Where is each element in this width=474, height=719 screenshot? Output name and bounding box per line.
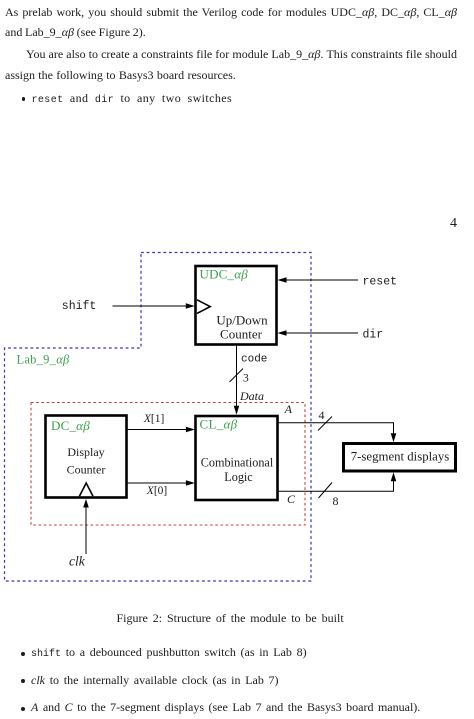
wire A 4-bit bus CL to displays bbox=[278, 402, 396, 442]
paragraph line 4 bbox=[5, 69, 236, 81]
paragraph line 1 bbox=[5, 6, 457, 18]
paragraph line 2 bbox=[5, 26, 146, 38]
block DC_ab Display Counter bbox=[46, 416, 127, 498]
svg-text:dir: dir bbox=[363, 329, 384, 342]
clock input triangle of UDC bbox=[197, 300, 210, 314]
svg-text:C: C bbox=[287, 492, 296, 506]
svg-text:X[0]: X[0] bbox=[146, 485, 167, 497]
svg-text:8: 8 bbox=[333, 494, 339, 508]
svg-text:Data: Data bbox=[239, 389, 264, 403]
svg-text:A: A bbox=[284, 402, 293, 416]
svg-text:Display: Display bbox=[67, 445, 104, 459]
svg-text:code: code bbox=[241, 354, 267, 366]
svg-text:UDC_αβ: UDC_αβ bbox=[200, 267, 249, 282]
svg-text:Up/Down: Up/Down bbox=[216, 313, 268, 328]
boundary red dashed (datapath group) bbox=[31, 403, 305, 526]
svg-text:shift: shift bbox=[62, 300, 97, 313]
clock input triangle of DC bbox=[79, 483, 93, 496]
block 7-segment displays bbox=[344, 444, 456, 472]
bullet A and C bbox=[21, 707, 25, 711]
bullet clk bbox=[21, 679, 25, 683]
wire shift input bbox=[62, 300, 195, 313]
svg-text:Combinational: Combinational bbox=[201, 455, 274, 469]
block CL_ab Combinational Logic bbox=[196, 416, 278, 500]
svg-text:CL_αβ: CL_αβ bbox=[200, 417, 238, 432]
bullet reset/dir bbox=[22, 97, 26, 101]
paragraph line 3 bbox=[26, 48, 457, 60]
block UDC_ab Up/Down Counter bbox=[196, 266, 277, 345]
svg-text:Lab_9_αβ: Lab_9_αβ bbox=[17, 353, 70, 367]
svg-text:Logic: Logic bbox=[224, 470, 253, 484]
boundary Lab_9_ab module (blue dashed) bbox=[5, 253, 312, 582]
wire C 8-bit bus CL to displays bbox=[278, 472, 396, 508]
svg-text:Counter: Counter bbox=[67, 463, 106, 477]
svg-text:3: 3 bbox=[243, 373, 249, 385]
wire clk input bbox=[69, 499, 89, 569]
svg-text:clk: clk bbox=[69, 554, 86, 569]
wire dir input bbox=[278, 329, 384, 342]
svg-text:DC_αβ: DC_αβ bbox=[51, 418, 90, 433]
bullet shift bbox=[21, 652, 25, 656]
wire X[1] bbox=[128, 413, 195, 432]
wire reset input bbox=[278, 276, 398, 289]
svg-text:7-segment displays: 7-segment displays bbox=[351, 450, 449, 464]
page number 4 bbox=[450, 217, 457, 231]
svg-text:X[1]: X[1] bbox=[143, 413, 164, 425]
wire code 3-bit bus UDC to CL bbox=[230, 345, 268, 415]
label Lab_9_ab bbox=[17, 353, 70, 367]
svg-text:Counter: Counter bbox=[220, 327, 263, 342]
figure caption bbox=[117, 612, 344, 624]
wire X[0] bbox=[128, 480, 195, 497]
svg-text:reset: reset bbox=[363, 276, 398, 289]
svg-text:4: 4 bbox=[319, 408, 325, 422]
